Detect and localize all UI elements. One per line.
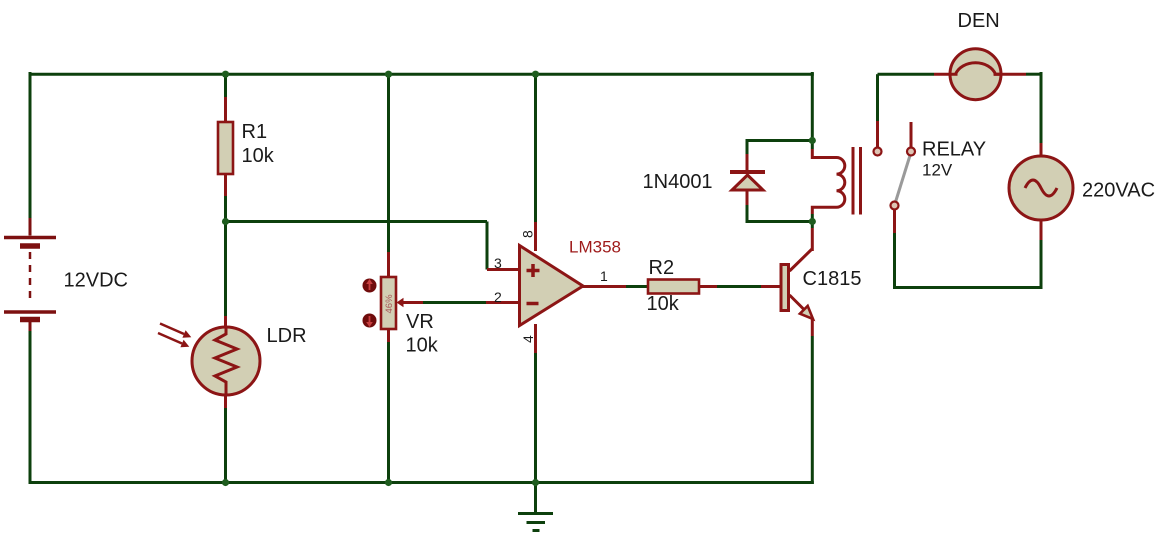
junction bottom rail ground <box>532 479 539 486</box>
svg-text:DEN: DEN <box>958 10 1000 32</box>
wire VR top pin <box>387 74 390 277</box>
wire left rail top <box>29 72 32 218</box>
wire mid rail to pin 3 <box>226 222 488 270</box>
relay RL1 coil <box>812 141 845 222</box>
wire VR bottom pin <box>387 329 390 484</box>
wire diode branch top <box>747 139 813 171</box>
wire switch left contact stub <box>876 74 879 148</box>
battery BT1 12VDC <box>4 218 56 331</box>
wire left rail bottom <box>29 330 32 484</box>
lamp DEN <box>950 49 1001 100</box>
svg-text:LM358: LM358 <box>569 238 621 257</box>
wire R1 bottom pin <box>224 174 227 222</box>
ground <box>518 483 553 531</box>
LDR light arrow 1 <box>160 324 191 338</box>
svg-text:2: 2 <box>494 289 502 305</box>
wire diode branch bottom <box>747 191 813 223</box>
resistor R1 <box>218 122 233 174</box>
wire R1 top pin <box>224 74 227 122</box>
wire bottom rail <box>30 481 814 484</box>
svg-text:VR: VR <box>406 311 434 333</box>
potentiometer VR up button <box>363 279 377 293</box>
junction top rail R1 <box>222 71 229 78</box>
svg-text:1N4001: 1N4001 <box>643 171 713 193</box>
wire switch right contact stub <box>910 122 913 148</box>
resistor R2 <box>648 280 699 294</box>
relay core lines <box>853 147 861 215</box>
wire lamp right <box>994 72 1041 157</box>
svg-text:220VAC: 220VAC <box>1082 180 1155 202</box>
junction mid rail R1-LDR <box>222 218 229 225</box>
wire lamp left <box>878 73 958 76</box>
svg-text:R2: R2 <box>649 257 675 279</box>
AC source 220VAC <box>1009 156 1073 220</box>
junction bottom rail VR <box>385 479 392 486</box>
switch contact right <box>907 148 915 156</box>
wire source bottom <box>895 220 1043 289</box>
wire pin 1 output <box>582 285 649 288</box>
wire wiper to pin 2 <box>423 301 520 304</box>
wire LDR top pin <box>224 222 227 329</box>
junction top rail VR <box>385 71 392 78</box>
svg-text:46%: 46% <box>384 294 395 314</box>
junction relay bottom <box>809 218 816 225</box>
wire pin 3 stub <box>487 268 520 271</box>
op-amp U1 LM358 <box>520 246 584 326</box>
wire collector <box>811 222 814 252</box>
switch pole contact <box>891 202 899 210</box>
svg-text:8: 8 <box>520 230 536 238</box>
wire pin 8 <box>534 74 537 251</box>
junction bottom rail LDR <box>222 479 229 486</box>
svg-text:1: 1 <box>600 268 608 284</box>
wire pin 4 <box>534 324 537 484</box>
potentiometer VR down button <box>363 314 377 328</box>
switch contact left <box>874 148 882 156</box>
svg-text:C1815: C1815 <box>803 268 862 290</box>
svg-text:10k: 10k <box>647 293 680 315</box>
svg-text:12V: 12V <box>922 161 953 180</box>
transistor Q1 C1815 <box>781 249 813 319</box>
svg-text:3: 3 <box>494 255 502 271</box>
wire LDR bottom pin <box>224 394 227 484</box>
switch blade <box>896 156 911 203</box>
junction top rail pin8 <box>532 71 539 78</box>
svg-text:10k: 10k <box>406 335 439 357</box>
svg-text:12VDC: 12VDC <box>64 270 128 292</box>
LDR light arrow 2 <box>158 333 189 347</box>
svg-text:LDR: LDR <box>267 325 307 347</box>
junction relay top <box>809 137 816 144</box>
svg-text:4: 4 <box>520 335 536 343</box>
wire relay branch from top rail <box>811 72 814 141</box>
wire R2 to base <box>699 285 780 288</box>
LDR photoresistor <box>192 327 260 395</box>
wire switch pole down <box>893 209 896 289</box>
potentiometer VR body <box>381 277 396 329</box>
svg-text:RELAY: RELAY <box>922 139 986 161</box>
svg-text:R1: R1 <box>242 121 268 143</box>
svg-text:10k: 10k <box>242 145 275 167</box>
diode D1 1N4001 <box>730 172 765 190</box>
potentiometer VR wiper arrow <box>397 298 424 307</box>
wire top rail <box>30 73 814 76</box>
wire emitter <box>811 319 814 484</box>
